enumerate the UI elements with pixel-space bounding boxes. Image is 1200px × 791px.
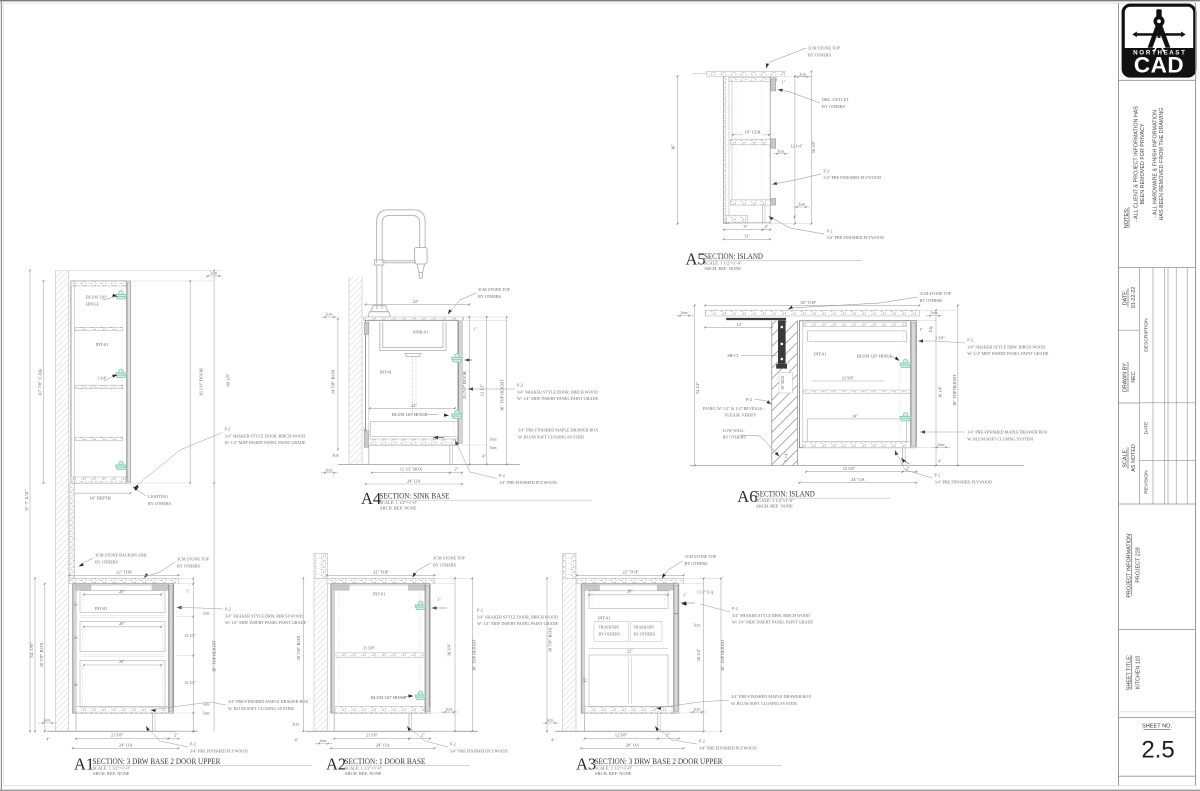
A6 mid shelf (804, 390, 911, 393)
svg-text:ARCH. REF: NONE: ARCH. REF: NONE (756, 504, 793, 509)
A2 floor extension (454, 730, 478, 732)
svg-text:P-2: P-2 (225, 607, 231, 612)
svg-text:BLUM 120° HINGE: BLUM 120° HINGE (392, 412, 428, 417)
svg-text:INT-01: INT-01 (598, 616, 610, 621)
A5 front panel blocks (771, 79, 776, 91)
A1 right dim door (189, 281, 191, 483)
svg-text:3cm: 3cm (931, 310, 939, 315)
A4 cabinet carcass (366, 320, 459, 445)
door front (424, 584, 426, 713)
svg-text:2": 2" (174, 733, 178, 738)
svg-text:5": 5" (75, 602, 79, 606)
svg-text:SHEET NO.: SHEET NO. (1142, 723, 1172, 729)
svg-text:P-2: P-2 (935, 473, 941, 478)
svg-text:A5: A5 (686, 250, 706, 269)
svg-text:3CM STONE TOP: 3CM STONE TOP (478, 287, 511, 292)
A6 bottom panel (803, 442, 917, 448)
floor line (47, 730, 198, 732)
A2 bottom dims (334, 738, 409, 740)
svg-text:P-2: P-2 (746, 397, 752, 402)
svg-text:4": 4" (938, 458, 942, 463)
svg-text:3cm: 3cm (694, 623, 702, 628)
A4 stone top (364, 317, 464, 320)
svg-text:3cm: 3cm (320, 738, 328, 743)
svg-text:15": 15" (584, 677, 588, 683)
side panel (74, 585, 77, 712)
titleblock section line sheettitle/sheetno (1119, 711, 1196, 713)
svg-text:W. BLUM SOFT CLOSING SYSTEM: W. BLUM SOFT CLOSING SYSTEM (228, 706, 294, 711)
svg-text:01-22-22: 01-22-22 (1131, 287, 1137, 309)
A6 bottom extension (916, 447, 936, 449)
base cabinet carcass (331, 584, 430, 713)
svg-text:35 7/8" DOOR: 35 7/8" DOOR (462, 371, 467, 399)
A6 36 TOP dim (705, 304, 919, 306)
A2 interior shelf (336, 653, 423, 658)
side panel (582, 585, 585, 712)
A1 right overall dim (213, 271, 215, 484)
A4 hinges (452, 354, 463, 362)
svg-text:AS NOTED: AS NOTED (1131, 444, 1137, 472)
svg-text:36" TOP HEIGHT: 36" TOP HEIGHT (471, 639, 476, 671)
A1 far-left overall dim (29, 271, 31, 732)
A6 hinges (900, 359, 911, 367)
svg-text:5'-7 1/2": 5'-7 1/2" (24, 489, 29, 511)
svg-text:21 5/8": 21 5/8" (363, 646, 376, 651)
svg-text:10" CLR.: 10" CLR. (745, 129, 762, 134)
svg-text:3/4" PRE FINISHED PLYWOOD: 3/4" PRE FINISHED PLYWOOD (827, 235, 884, 240)
svg-text:P-2: P-2 (967, 338, 973, 343)
A4 22 dim inside (370, 407, 455, 409)
sheet left edge line (1, 0, 2, 791)
svg-text:1": 1" (438, 597, 442, 602)
A1 upper extension lines (56, 270, 223, 272)
toe kick (584, 713, 586, 731)
svg-text:ARCH. REF: NONE: ARCH. REF: NONE (380, 506, 417, 511)
A6 bracket SB-C1 (778, 320, 786, 364)
A1 left dim CAB (43, 281, 45, 483)
svg-text:DATE: DATE (1144, 421, 1150, 434)
svg-text:22": 22" (413, 299, 419, 304)
svg-text:36" TOP HEIGHT: 36" TOP HEIGHT (212, 640, 217, 672)
svg-text:4": 4" (482, 454, 486, 459)
svg-text:20": 20" (119, 621, 125, 626)
svg-text:PROJECT 228: PROJECT 228 (1136, 547, 1142, 583)
svg-text:24" OA: 24" OA (376, 743, 390, 748)
svg-text:SCALE: 1 1/2"=1'-0": SCALE: 1 1/2"=1'-0" (345, 766, 383, 771)
A6 left dim (694, 305, 696, 465)
svg-text:36 1/4": 36 1/4" (696, 648, 701, 661)
svg-text:2": 2" (421, 733, 425, 738)
svg-text:3cm: 3cm (446, 707, 454, 712)
A3 22 TOP dim (577, 574, 684, 576)
svg-text:W/ 1/4" MDF INSERT PANEL PAINT: W/ 1/4" MDF INSERT PANEL PAINT GRADE (477, 621, 559, 626)
A5 bottom shelf (730, 200, 770, 205)
svg-text:4": 4" (551, 738, 555, 743)
A3 top drawer box (589, 591, 668, 609)
A5 top stone leader (770, 48, 806, 62)
A1 drawer fronts (169, 616, 174, 618)
A1 base left dims (34, 578, 36, 731)
A2 stone backsplash (314, 554, 328, 579)
titleblock bottom line (1119, 775, 1196, 777)
svg-text:3CM STONE TOP: 3CM STONE TOP (433, 556, 466, 561)
A4 left dims (337, 319, 339, 449)
svg-text:P-2: P-2 (190, 742, 196, 747)
cabinet bottom panel (76, 707, 174, 714)
svg-text:DESCRIPTION: DESCRIPTION (1144, 318, 1150, 352)
A4 drawer arrow (433, 436, 438, 439)
section A4 wall hatch (349, 277, 362, 465)
svg-text:W/ 1/4" MDF INSERT PANEL PAINT: W/ 1/4" MDF INSERT PANEL PAINT GRADE (225, 440, 307, 445)
svg-text:SCALE: 1 1/2"=1'-0": SCALE: 1 1/2"=1'-0" (93, 766, 131, 771)
svg-text:8": 8" (75, 682, 79, 686)
svg-text:36" TOP HEIGHT: 36" TOP HEIGHT (499, 379, 504, 411)
svg-text:- ALL HARDWARE & FINISH INFORM: - ALL HARDWARE & FINISH INFORMATION (1152, 110, 1158, 218)
svg-text:SB-C1: SB-C1 (727, 353, 738, 358)
svg-text:3cm: 3cm (681, 310, 689, 315)
svg-text:36" TOP HEIGHT: 36" TOP HEIGHT (952, 374, 957, 406)
svg-text:BY OTHERS: BY OTHERS (95, 559, 119, 564)
A1 stone backsplash (70, 483, 75, 578)
svg-text:5": 5" (364, 427, 368, 431)
svg-text:BY OTHERS: BY OTHERS (808, 52, 832, 57)
svg-text:3cm: 3cm (799, 71, 807, 76)
stone counter top (327, 578, 435, 584)
svg-text:BLUM 120° HINGE: BLUM 120° HINGE (371, 695, 407, 700)
stone counter top (577, 578, 684, 584)
A1 drawer boxes (80, 591, 165, 613)
svg-text:13 1/2": 13 1/2" (184, 633, 196, 638)
svg-text:8": 8" (75, 635, 79, 639)
A3 pullout box (589, 655, 668, 707)
A6 top rail (804, 322, 907, 326)
section A3 wall hatch (563, 578, 577, 731)
svg-text:DRAWN BY:: DRAWN BY: (1123, 362, 1129, 392)
svg-text:36 1/8" DOOR: 36 1/8" DOOR (199, 368, 204, 396)
svg-text:HINGE: HINGE (86, 301, 99, 306)
svg-text:INT-01: INT-01 (380, 370, 392, 375)
svg-text:22": 22" (411, 403, 417, 408)
A5 top panel (729, 78, 777, 82)
svg-text:69 1/8": 69 1/8" (226, 373, 231, 386)
svg-text:3/4" PRE FINISHED PLYWOOD: 3/4" PRE FINISHED PLYWOOD (190, 748, 247, 753)
svg-text:3/4" PRE FINISHED PLYWOOD: 3/4" PRE FINISHED PLYWOOD (699, 745, 756, 750)
A1 upper door (126, 281, 128, 483)
svg-text:E.Q.: E.Q. (929, 326, 933, 333)
svg-text:CAD: CAD (1134, 53, 1184, 78)
svg-text:2": 2" (455, 467, 459, 472)
cell line drawnby/scale (1119, 402, 1140, 404)
svg-text:INT-01: INT-01 (814, 351, 826, 356)
svg-text:NEC: NEC (1131, 371, 1137, 382)
A6 30 BOX dim box (779, 373, 793, 394)
side panel (332, 585, 335, 712)
A3 right dims (703, 578, 705, 731)
A6 right dims (935, 310, 937, 465)
svg-text:3cm: 3cm (44, 718, 52, 723)
A4 toe kick (368, 445, 370, 465)
svg-text:3/4" PRE FINISHED PLYWOOD: 3/4" PRE FINISHED PLYWOOD (823, 175, 880, 180)
svg-text:3/4" PRE-FINISHED MAPLE DRAWER: 3/4" PRE-FINISHED MAPLE DRAWER BOX (731, 694, 811, 699)
svg-text:BY OTHERS: BY OTHERS (634, 632, 655, 636)
svg-text:67 7/8" CAB: 67 7/8" CAB (38, 369, 43, 395)
svg-text:W/ 1/4" MDF INSERT PANEL PAINT: W/ 1/4" MDF INSERT PANEL PAINT GRADE (225, 620, 307, 625)
sheet bottom edge bar (0, 790, 1200, 791)
svg-text:PROJECT INFORMATION:: PROJECT INFORMATION: (1126, 532, 1132, 597)
svg-text:W. BLUM SOFT CLOSING SYSTEM: W. BLUM SOFT CLOSING SYSTEM (967, 436, 1033, 441)
svg-text:20": 20" (627, 588, 633, 593)
svg-text:3/4" PRE FINISHED PLYWOOD: 3/4" PRE FINISHED PLYWOOD (935, 480, 992, 485)
section A2 wall hatch (314, 578, 328, 731)
svg-text:SCALE: 1 1/2"=1'-0": SCALE: 1 1/2"=1'-0" (756, 498, 794, 503)
svg-text:3cm: 3cm (203, 712, 210, 716)
A3 extension lines (684, 577, 722, 579)
A4 extension lines (464, 316, 507, 318)
A1 upper hinges (116, 291, 127, 299)
titleblock section line rev/project (1119, 503, 1196, 505)
A6 floor line (690, 465, 1024, 467)
svg-text:1": 1" (473, 327, 477, 332)
svg-text:3CM STONE TOP: 3CM STONE TOP (685, 554, 718, 559)
titleblock section line project/sheettitle (1119, 629, 1196, 631)
svg-text:PLEASE VERIFY: PLEASE VERIFY (725, 412, 756, 417)
svg-text:4": 4" (295, 738, 299, 743)
A6 stone top (705, 310, 919, 316)
svg-text:3cm: 3cm (694, 707, 702, 712)
svg-text:13 1/2": 13 1/2" (184, 680, 196, 685)
A6 counter underside (726, 318, 786, 320)
base cabinet carcass (581, 584, 678, 713)
svg-text:21 5/8": 21 5/8" (111, 733, 124, 738)
svg-text:W/ 1/4" MDF INSERT PANEL PAINT: W/ 1/4" MDF INSERT PANEL PAINT GRADE (967, 351, 1049, 356)
stone counter top (70, 578, 179, 584)
A5 stone top (707, 72, 785, 77)
svg-text:1": 1" (186, 589, 190, 594)
svg-text:3cm: 3cm (490, 437, 498, 442)
svg-text:P-2: P-2 (517, 383, 523, 388)
svg-text:ARCH. REF: NONE: ARCH. REF: NONE (704, 266, 741, 271)
svg-text:P-2: P-2 (827, 228, 833, 233)
svg-text:3cm: 3cm (326, 467, 334, 472)
svg-text:ARCH. REF: NONE: ARCH. REF: NONE (595, 771, 632, 776)
A6 door front (910, 321, 912, 448)
A1 upper cabinet top panel (71, 281, 131, 286)
svg-text:2": 2" (765, 224, 769, 229)
svg-text:BY OTHERS: BY OTHERS (177, 563, 201, 568)
titleblock section line notes/date (1119, 267, 1196, 269)
svg-text:BY OTHERS: BY OTHERS (148, 501, 172, 506)
sheet right border (1195, 3, 1197, 785)
A6 bottom dims (806, 471, 903, 473)
A2 right dims (454, 578, 456, 731)
A4 back corner blocks (364, 323, 369, 335)
svg-text:A2: A2 (326, 755, 346, 774)
svg-text:SHEET TITLE:: SHEET TITLE: (1126, 655, 1132, 690)
svg-text:ARCH. REF: NONE: ARCH. REF: NONE (93, 771, 130, 776)
A3 door arrow (681, 601, 686, 604)
svg-text:24" OA: 24" OA (119, 743, 133, 748)
svg-text:21 5/8": 21 5/8" (842, 375, 855, 380)
A5 stone dim ticks left (692, 73, 707, 75)
svg-text:BY OTHERS: BY OTHERS (723, 435, 747, 440)
svg-text:DBL. OUTLET: DBL. OUTLET (822, 97, 849, 102)
svg-text:24": 24" (852, 413, 858, 418)
cabinet bottom panel (585, 707, 679, 714)
svg-text:W. BLUM SOFT CLOSING SYSTEM: W. BLUM SOFT CLOSING SYSTEM (518, 434, 584, 439)
svg-text:ARCH. REF: NONE: ARCH. REF: NONE (345, 771, 382, 776)
svg-text:3CM STONE TOP: 3CM STONE TOP (920, 291, 953, 296)
svg-text:36 1/4": 36 1/4" (447, 643, 452, 656)
svg-text:30 7/8" BOX: 30 7/8" BOX (39, 642, 44, 668)
svg-text:W. BLUM SOFT CLOSING SYSTEM: W. BLUM SOFT CLOSING SYSTEM (731, 701, 797, 706)
svg-text:SCALE:: SCALE: (1123, 448, 1129, 467)
svg-text:BY OTHERS: BY OTHERS (478, 294, 502, 299)
svg-text:INT-01: INT-01 (373, 592, 385, 597)
svg-text:36": 36" (671, 144, 676, 150)
toe kick (333, 713, 335, 731)
A4 sink tailpiece dashed (412, 358, 414, 418)
svg-text:TRASH BIN: TRASH BIN (599, 626, 620, 630)
A5 mid shelf (730, 140, 770, 145)
svg-text:SCALE: 1 1/2"=1'-0": SCALE: 1 1/2"=1'-0" (595, 766, 633, 771)
svg-text:3cm: 3cm (798, 202, 806, 207)
A4 right dims (468, 317, 470, 465)
svg-text:22": 22" (627, 648, 633, 653)
svg-text:BLUM 120°: BLUM 120° (86, 295, 107, 300)
svg-text:P-2: P-2 (499, 473, 505, 478)
door front (673, 584, 675, 713)
A6 toe kick (902, 448, 904, 466)
A5 carcass lines (723, 76, 725, 224)
A4 cabinet bottom panel (369, 439, 458, 445)
svg-text:12 1/4": 12 1/4" (791, 144, 803, 149)
svg-text:3CM STONE TOP: 3CM STONE TOP (808, 46, 841, 51)
svg-text:11": 11" (744, 234, 750, 239)
A3 bottom dims (585, 738, 659, 740)
svg-text:SINK-01: SINK-01 (413, 330, 428, 335)
svg-text:36" TOP: 36" TOP (800, 300, 816, 305)
svg-text:1 3/4": 1 3/4" (97, 376, 107, 381)
A5 toe area (761, 205, 763, 223)
svg-text:BY OTHERS: BY OTHERS (822, 104, 846, 109)
cabinet top rail (76, 584, 169, 586)
svg-text:LIGHTING: LIGHTING (148, 494, 168, 499)
cabinet bottom panel (334, 707, 430, 714)
svg-text:INT-01: INT-01 (95, 606, 107, 611)
A4 drawer box (371, 421, 459, 436)
svg-text:HAS BEEN REMOVED FROM THE DRAW: HAS BEEN REMOVED FROM THE DRAWING (1159, 108, 1165, 221)
A3 left dims (546, 578, 548, 731)
A5 right dim lines (794, 76, 796, 224)
svg-text:5 1/4": 5 1/4" (785, 452, 789, 462)
svg-text:W/ 1/4" MDF INSERT PANEL PAINT: W/ 1/4" MDF INSERT PANEL PAINT GRADE (517, 396, 599, 401)
A4 22 dim above counter (366, 303, 470, 305)
svg-text:P-2: P-2 (225, 427, 231, 432)
svg-text:22" TOP: 22" TOP (116, 570, 132, 575)
svg-text:BY OTHERS: BY OTHERS (920, 298, 944, 303)
svg-text:22" TOP: 22" TOP (373, 570, 389, 575)
svg-text:20": 20" (119, 659, 125, 664)
svg-text:3cm: 3cm (332, 452, 340, 457)
A2 hinges (415, 601, 426, 609)
svg-text:BEEN REMOVED FOR PRIVACY: BEEN REMOVED FOR PRIVACY (1140, 123, 1146, 204)
svg-text:3cm: 3cm (292, 723, 299, 727)
svg-text:12 5/8": 12 5/8" (843, 466, 856, 471)
A1 upper back panel (73, 281, 75, 483)
revision log table (1138, 268, 1140, 505)
A1 upper cabinet carcass (71, 281, 131, 483)
svg-text:3cm: 3cm (777, 148, 785, 153)
svg-text:SCALE: 1 1/2"=1'-0": SCALE: 1 1/2"=1'-0" (704, 261, 742, 266)
A4 floor line (338, 464, 520, 466)
svg-text:W/ 1/4" MDF INSERT PANEL PAINT: W/ 1/4" MDF INSERT PANEL PAINT GRADE (732, 620, 814, 625)
svg-text:P-2: P-2 (477, 608, 483, 613)
logo NORTHEAST CAD (1123, 5, 1195, 77)
A2 door arrow (432, 606, 437, 609)
A1 shelf pin dotted lines (78, 288, 80, 476)
A2 dotted pin lines (338, 592, 340, 708)
svg-text:14": 14" (737, 322, 743, 327)
A1 bottom dims (76, 738, 169, 740)
cabinet top rail (585, 584, 674, 586)
svg-text:1 1/2" E.Q.: 1 1/2" E.Q. (697, 591, 714, 595)
A1 base right dims (192, 578, 194, 731)
floor line (555, 730, 702, 732)
svg-text:56 1/8": 56 1/8" (811, 141, 816, 154)
A6 low wall hatch (772, 321, 798, 466)
A6 cabinet carcass (800, 321, 917, 448)
floor line (305, 730, 454, 732)
A5 bottom dims (724, 229, 763, 231)
svg-text:14" DEPTH: 14" DEPTH (89, 495, 111, 500)
A1 extension lines to dim (177, 616, 194, 618)
svg-text:3cm: 3cm (547, 718, 555, 723)
A3 trash bins (594, 622, 629, 642)
A1 upper cabinet bottom panel (71, 477, 131, 483)
A5 dotted lines (735, 84, 737, 198)
svg-text:3/4" PRE-FINISHED MAPLE DRAWER: 3/4" PRE-FINISHED MAPLE DRAWER BOX (518, 428, 598, 433)
A4 faucet (368, 210, 427, 317)
A2 extension lines (435, 577, 473, 579)
sheet top edge bar (0, 0, 1200, 1)
svg-text:BLUM 120° HINGE: BLUM 120° HINGE (857, 353, 893, 358)
svg-text:DATE:: DATE: (1123, 290, 1129, 305)
cabinet top rail (334, 584, 425, 586)
section A1 wall hatch (56, 271, 69, 732)
A3 20 dim top (589, 594, 668, 596)
svg-text:P-2: P-2 (732, 606, 738, 611)
A6 drawer divider front (911, 344, 917, 346)
A5 extension lines (776, 75, 812, 77)
svg-text:22" TOP: 22" TOP (622, 570, 638, 575)
A4 bottom dims (372, 472, 450, 474)
svg-text:A4: A4 (361, 489, 381, 508)
svg-text:3CM STONE BACKSPLASH: 3CM STONE BACKSPLASH (95, 553, 146, 558)
svg-text:3/4" PRE-FINISHED MAPLE DRAWER: 3/4" PRE-FINISHED MAPLE DRAWER BOX (228, 699, 308, 704)
A2 left dims (302, 578, 304, 731)
svg-text:12 1/2": 12 1/2" (479, 384, 484, 397)
svg-text:24" OA: 24" OA (851, 477, 865, 482)
A6 top drawer box (808, 331, 907, 342)
svg-text:34 1/8": 34 1/8" (29, 642, 34, 658)
svg-text:P-2: P-2 (699, 739, 705, 744)
svg-text:A6: A6 (737, 487, 757, 506)
svg-text:3/4" PRE FINISHED PLYWOOD: 3/4" PRE FINISHED PLYWOOD (499, 480, 556, 485)
svg-text:34 7/8" BOX: 34 7/8" BOX (331, 369, 336, 395)
svg-text:BY OTHERS: BY OTHERS (433, 562, 457, 567)
A3 drawer divider (674, 613, 679, 615)
svg-text:2.5: 2.5 (1141, 737, 1174, 764)
